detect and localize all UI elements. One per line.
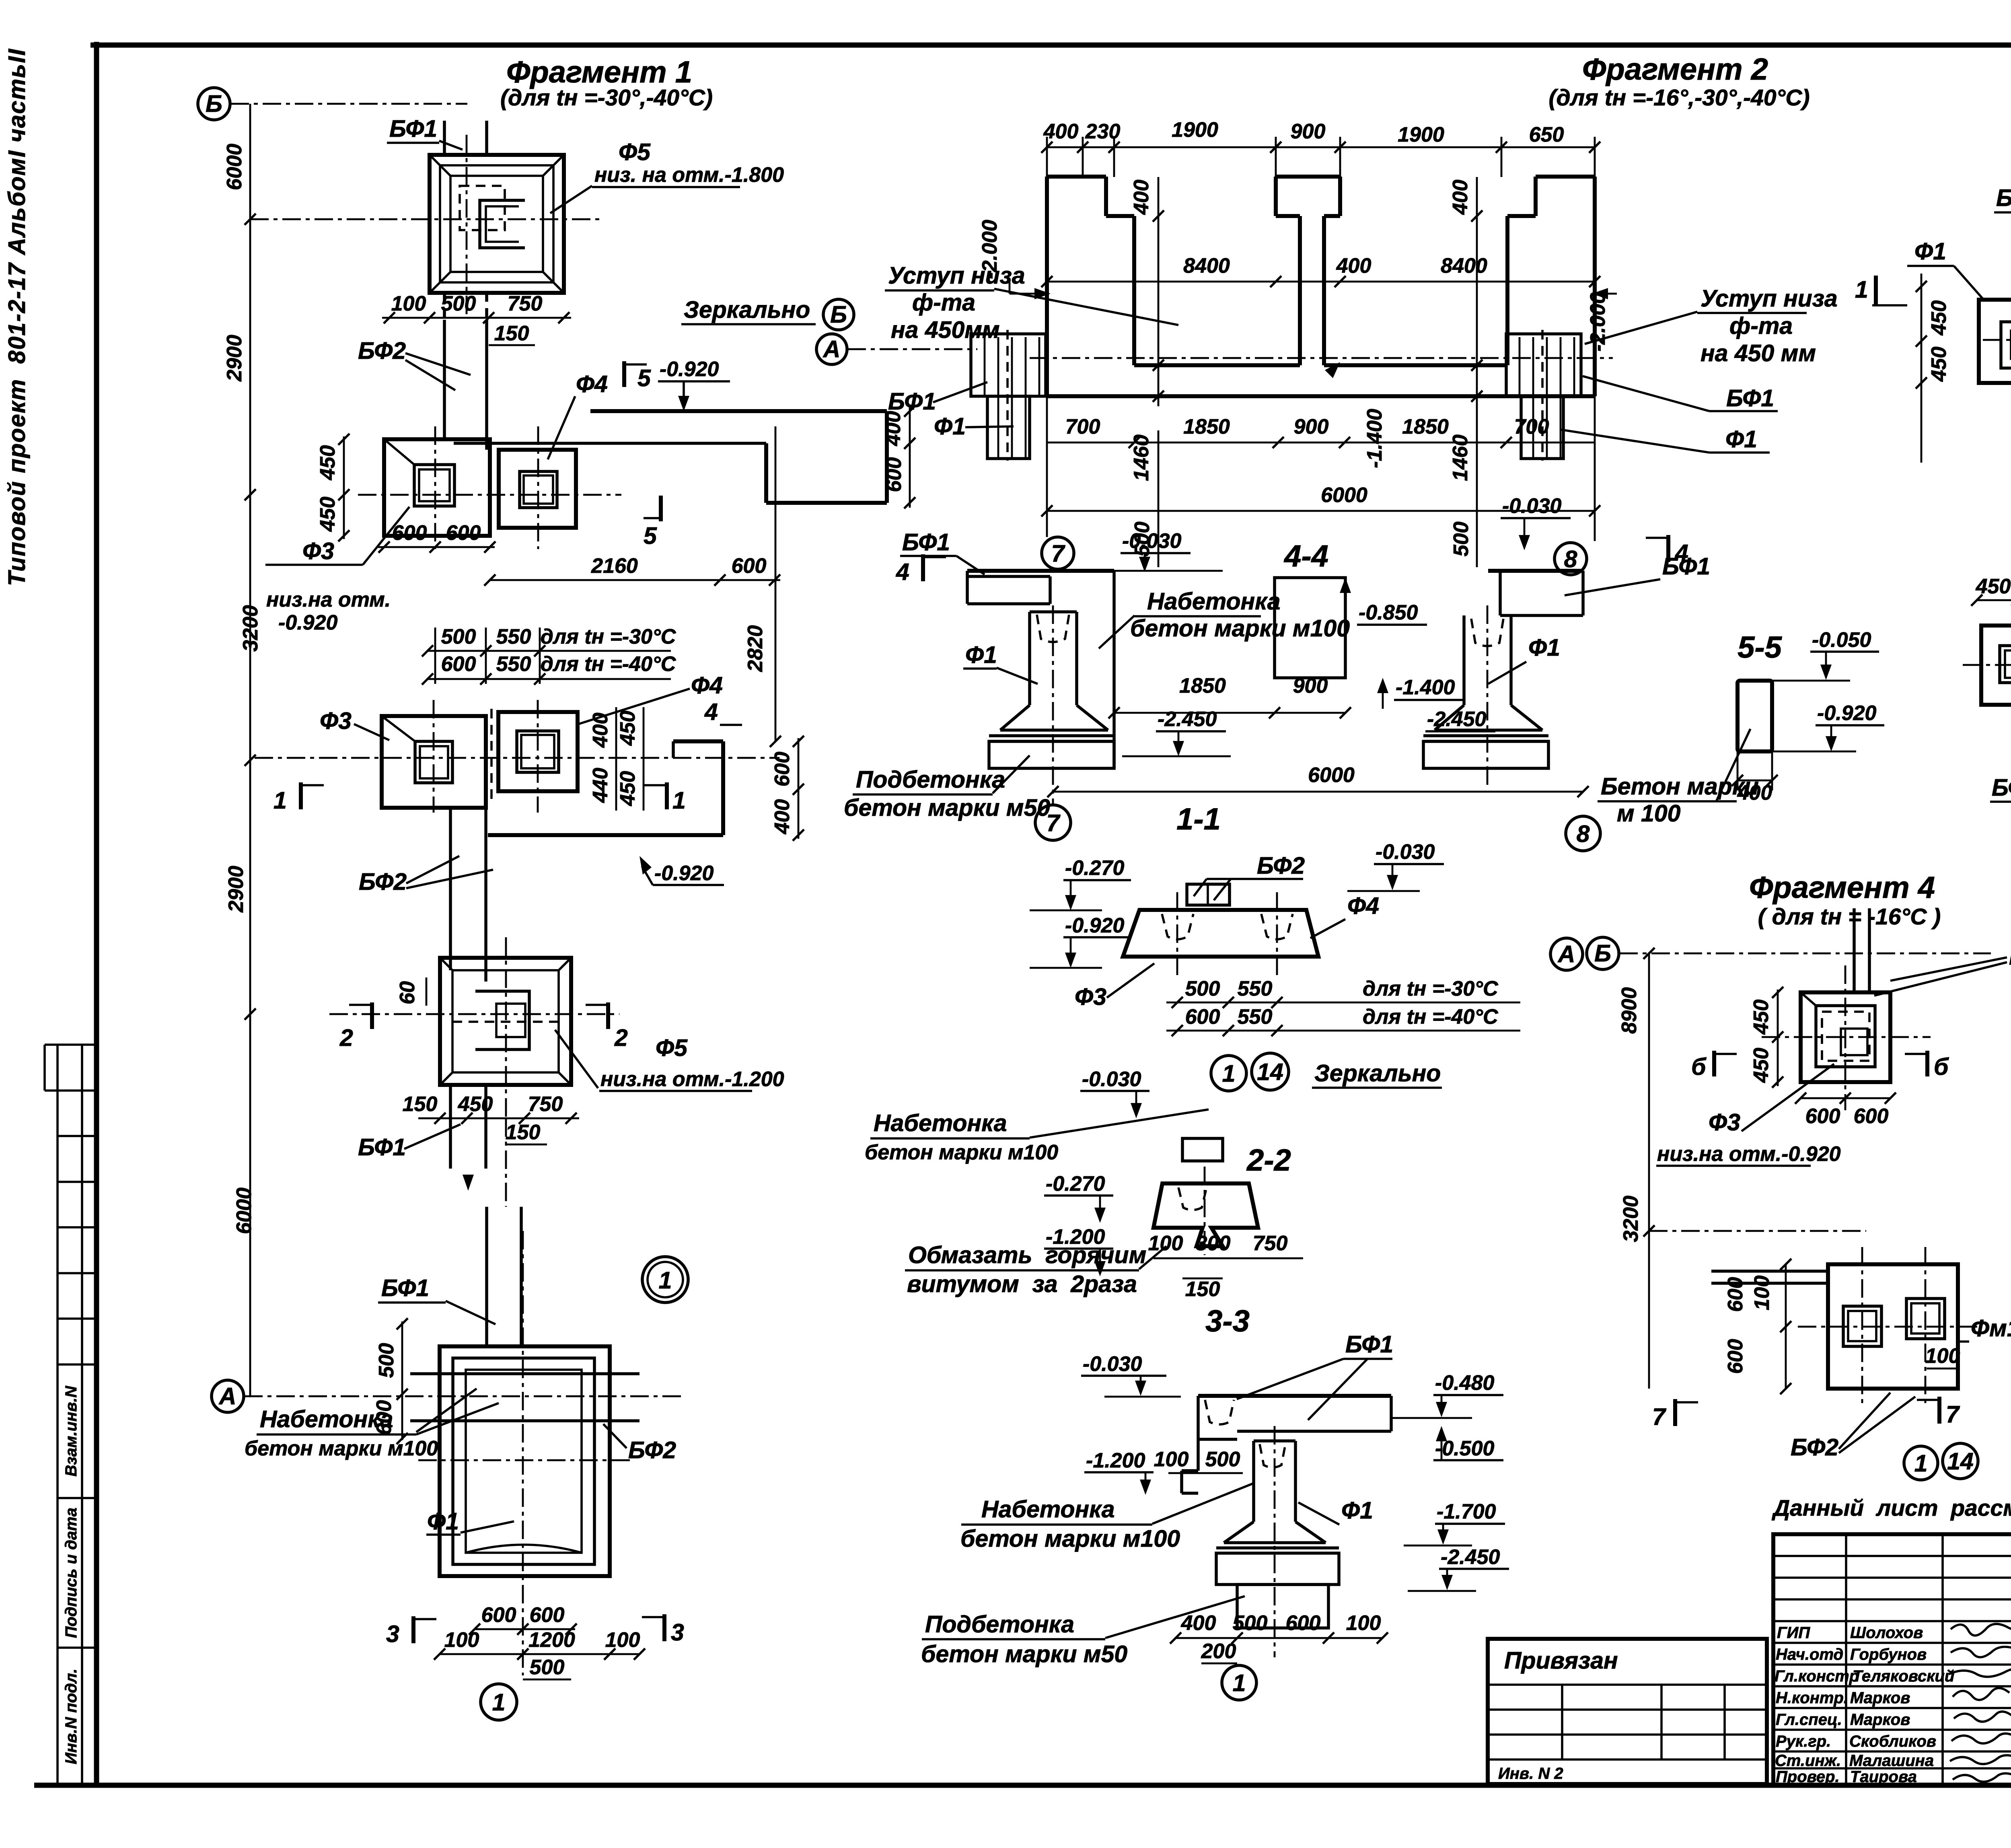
- svg-text:750: 750: [528, 1093, 563, 1116]
- dim 2160 600: [484, 554, 780, 586]
- foundation Ф5 plan bottom: [440, 958, 571, 1085]
- svg-text:Фрагмент 4: Фрагмент 4: [1749, 870, 1935, 905]
- Привязан box: [1488, 1639, 1767, 1784]
- foundation Ф4 plan (middle): [491, 709, 578, 801]
- svg-text:500: 500: [375, 1343, 398, 1378]
- svg-text:Набетонка: Набетонка: [260, 1406, 393, 1432]
- svg-text:8900: 8900: [1618, 987, 1641, 1034]
- svg-text:БФ2: БФ2: [1992, 774, 2011, 801]
- svg-text:600: 600: [446, 521, 481, 545]
- 4-4 plan: top dim row 400 230 1900 900 1900 650: [1041, 118, 1600, 177]
- dim 600/400 right of middle wall: [771, 736, 804, 841]
- dim 100 (fragment 4 lower): [1925, 1344, 1960, 1369]
- 4-4 left column stub БФ1: [971, 330, 1046, 461]
- svg-text:400: 400: [771, 799, 794, 835]
- label БФ2 (2-2): [1194, 852, 1305, 900]
- fragment 3 lower foundation Ф4 plan: [1981, 626, 2011, 705]
- svg-text:БФ1: БФ1: [1726, 385, 1774, 412]
- svg-text:900: 900: [1291, 120, 1326, 143]
- svg-text:-0.030: -0.030: [1122, 529, 1182, 553]
- label Ф3 (2-2): [1075, 963, 1154, 1010]
- svg-text:Теляковский: Теляковский: [1853, 1667, 1954, 1685]
- section marks 1-1 (fragment 1): [273, 782, 324, 814]
- svg-text:750: 750: [1253, 1232, 1288, 1255]
- label БФ1 top: [387, 115, 463, 150]
- dims 100 1200 100: [434, 1628, 645, 1679]
- foundation Ф3 plan (fragment 4): [1801, 992, 1890, 1082]
- svg-text:2820: 2820: [744, 625, 767, 672]
- svg-text:Гл.спец.: Гл.спец.: [1776, 1711, 1842, 1729]
- svg-text:1-1: 1-1: [1176, 802, 1221, 836]
- label БФ2 (fragment 3 lower): [1990, 774, 2011, 803]
- svg-text:600: 600: [1854, 1105, 1889, 1128]
- svg-text:6000: 6000: [1308, 763, 1355, 787]
- grid circle 1 (3-3): [1222, 1665, 1256, 1700]
- elevation -2.450 left (1-1): [1122, 708, 1231, 756]
- dim 1850 900 (1-1): [1108, 674, 1351, 718]
- centerlines bottom Ф5: [329, 937, 619, 1118]
- label БФ1 (3-3): [1237, 1331, 1393, 1420]
- svg-text:100: 100: [1750, 1276, 1774, 1311]
- label Набетонка (3-3): [960, 1484, 1253, 1552]
- svg-text:150: 150: [506, 1121, 541, 1144]
- label Ф1 (1-1): [963, 642, 1038, 684]
- label Набетонка (2-2/3-3 area): [865, 1109, 1209, 1164]
- centerlines (fragment 4 plan): [1762, 965, 1931, 1110]
- foundation Ф3 plan (upper): [384, 439, 490, 536]
- svg-text:А: А: [218, 1383, 236, 1410]
- label Ф3 with note (upper): [265, 507, 409, 634]
- svg-text:низ.на отм.-0.920: низ.на отм.-0.920: [1657, 1142, 1841, 1166]
- section marks 2: [339, 1002, 372, 1051]
- dim -1.400 middle: [1325, 362, 1386, 468]
- dims 100 500 (3-3): [1154, 1448, 1243, 1473]
- label Ф3 (middle plan): [320, 708, 389, 740]
- svg-text:14: 14: [1257, 1059, 1283, 1085]
- centerlines middle plan: [255, 700, 779, 813]
- foundation Ф1 plan (bottom, tall): [440, 1346, 610, 1576]
- section mark 5 bottom: [644, 496, 661, 549]
- svg-text:440: 440: [589, 768, 612, 803]
- svg-text:1850: 1850: [1183, 415, 1230, 438]
- signature squiggles: [1949, 1621, 2011, 1782]
- 4-4 plan outline: left tower: [1047, 177, 1134, 396]
- svg-text:-0.920: -0.920: [1065, 914, 1125, 937]
- dim table rows для t -30/-40 (fragment 1 middle): [422, 625, 677, 685]
- label БФ1 (4-4 left): [888, 382, 987, 415]
- svg-text:600: 600: [771, 752, 794, 787]
- svg-text:550: 550: [1238, 977, 1273, 1000]
- fragment 1 title: [500, 55, 713, 111]
- svg-text:Ф3: Ф3: [1709, 1109, 1740, 1136]
- svg-text:-0.050: -0.050: [1812, 628, 1871, 652]
- svg-text:8400: 8400: [1183, 254, 1230, 278]
- label БФ2 upper: [358, 337, 471, 390]
- svg-text:1: 1: [1914, 1450, 1928, 1477]
- svg-text:6000: 6000: [232, 1187, 256, 1234]
- svg-text:600: 600: [392, 521, 427, 545]
- label Набетонка (fragment 1 bottom): [245, 1389, 499, 1460]
- svg-text:450: 450: [1927, 300, 1951, 336]
- svg-text:600: 600: [882, 457, 906, 492]
- svg-text:-0.480: -0.480: [1435, 1371, 1495, 1395]
- svg-text:бетон марки м100: бетон марки м100: [960, 1525, 1180, 1552]
- svg-text:1460: 1460: [1449, 434, 1472, 481]
- svg-text:БФ2: БФ2: [358, 337, 406, 364]
- dim 500/600 left of bottom plan: [372, 1318, 408, 1444]
- svg-text:4: 4: [704, 699, 718, 725]
- svg-text:Скобликов: Скобликов: [1849, 1733, 1936, 1750]
- grid circle Б: [198, 88, 230, 120]
- svg-text:600: 600: [1724, 1277, 1747, 1312]
- signature table rows: [1773, 1534, 2011, 1785]
- svg-text:Ф1: Ф1: [1341, 1497, 1373, 1524]
- svg-text:600: 600: [1185, 1005, 1220, 1029]
- svg-text:100: 100: [1346, 1611, 1381, 1635]
- section marks 7 (fragment 4): [1652, 1399, 1698, 1430]
- section title 2-2: [1246, 1143, 1291, 1177]
- dim 400 (5-5): [1732, 751, 1778, 805]
- svg-text:Набетонка: Набетонка: [1147, 588, 1281, 615]
- svg-text:б: б: [1691, 1054, 1707, 1080]
- frame border left: [94, 42, 99, 1785]
- grid circles А Б (fragment 4): [1550, 938, 1583, 970]
- БФ2 beam blocks (2-2): [1187, 884, 1230, 905]
- svg-text:900: 900: [1294, 415, 1329, 438]
- grid circles 1 14 (fragment 4): [1904, 1446, 1938, 1480]
- svg-text:ф-та: ф-та: [1729, 313, 1793, 339]
- elevation -0.030 (1-1 right): [1501, 494, 1571, 550]
- svg-text:Ф3: Ф3: [320, 708, 352, 734]
- svg-text:-2.450: -2.450: [1158, 708, 1217, 731]
- svg-text:Фрагмент 2: Фрагмент 2: [1582, 52, 1768, 86]
- elevation -0.920 upper: [658, 358, 730, 411]
- svg-text:3: 3: [671, 1619, 684, 1646]
- svg-text:низ. на отм.-1.800: низ. на отм.-1.800: [594, 163, 784, 187]
- label Подбетонка (3-3): [921, 1596, 1245, 1667]
- svg-text:1200: 1200: [528, 1628, 575, 1652]
- label Набетонка (1-1): [1099, 588, 1350, 648]
- svg-text:Ф3: Ф3: [1075, 984, 1106, 1010]
- grid circle Б (mirror): [823, 299, 854, 330]
- svg-text:Провер.: Провер.: [1776, 1768, 1840, 1786]
- 1-1 middle pier: [1275, 578, 1345, 678]
- centerlines fragment 3 blocks: [1983, 278, 2011, 459]
- beam band across bottom plan: [410, 1374, 639, 1421]
- dim 600 600 below Ф3: [378, 521, 496, 553]
- svg-text:300: 300: [1196, 1232, 1231, 1255]
- section title 3-3: [1205, 1304, 1250, 1338]
- left margin table verticals: [45, 1045, 82, 1785]
- svg-text:1850: 1850: [1402, 415, 1449, 438]
- label Обмазать горячим битумом за 2 раза: [905, 1242, 1166, 1297]
- foundation Ф5 plan top: nested squares: [430, 155, 564, 293]
- svg-text:Ст.инж.: Ст.инж.: [1775, 1752, 1841, 1770]
- svg-text:бетон марки м50: бетон марки м50: [921, 1641, 1127, 1667]
- label БФ2 (fragment 4 lower): [1791, 1393, 1915, 1461]
- svg-text:500: 500: [1205, 1448, 1240, 1471]
- svg-text:бетон марки м100: бетон марки м100: [245, 1437, 438, 1460]
- svg-text:БФ1: БФ1: [1662, 553, 1710, 580]
- label Зеркально (2-2): [1312, 1060, 1442, 1088]
- dim 2820 (fragment 1): [744, 426, 781, 747]
- svg-text:Ф4: Ф4: [576, 371, 608, 397]
- label Подбетонка (1-1): [844, 755, 1050, 821]
- label бетон марки М100 (5-5): [1598, 729, 1759, 827]
- wall corner plan (upper right of fragment 1): [454, 411, 887, 503]
- svg-text:БФ2: БФ2: [1791, 1434, 1838, 1461]
- label БФ1 right (bottom plan): [603, 1424, 676, 1463]
- svg-text:1: 1: [1233, 1670, 1246, 1696]
- svg-text:400: 400: [1181, 1611, 1216, 1635]
- centerlines of Ф5 top: [250, 135, 603, 318]
- vertical dimension chain x=622: [223, 104, 262, 1396]
- grid circle 7 (1-1): [1035, 805, 1071, 840]
- svg-text:450: 450: [1927, 347, 1951, 382]
- dims 600 100 600 (fragment 4 lower): [1724, 1259, 1791, 1394]
- svg-text:60: 60: [396, 981, 419, 1004]
- svg-text:500: 500: [1450, 522, 1473, 557]
- svg-text:БФ2: БФ2: [1257, 852, 1305, 879]
- svg-text:Инв.N подл.: Инв.N подл.: [62, 1669, 80, 1764]
- dims 600 600 below bottom plan: [469, 1603, 577, 1635]
- label Ф4 (2-2): [1310, 893, 1379, 938]
- svg-text:600: 600: [1286, 1611, 1321, 1635]
- svg-text:Б: Б: [206, 91, 222, 117]
- svg-text:БФ2: БФ2: [628, 1437, 676, 1463]
- elevation -0.030 (3-3): [1081, 1352, 1181, 1397]
- section marks 3: [386, 1616, 436, 1647]
- elevation -1.200 (3-3): [1084, 1449, 1154, 1495]
- svg-text:-0.920: -0.920: [654, 862, 714, 885]
- elevation -2.450 (3-3): [1408, 1545, 1509, 1591]
- svg-text:Марков: Марков: [1850, 1711, 1910, 1729]
- elevation -0.920 (5-5): [1772, 702, 1884, 751]
- svg-text:Ф1: Ф1: [1914, 238, 1946, 265]
- elevation -1.200 (3-3 upper): [1044, 1225, 1113, 1276]
- svg-text:Нач.отд: Нач.отд: [1776, 1646, 1843, 1663]
- elevation -0.500 (3-3 right): [1433, 1426, 1503, 1460]
- svg-text:Марков: Марков: [1850, 1689, 1910, 1707]
- svg-text:100: 100: [1154, 1448, 1189, 1471]
- fragment 4 lower plan Фм1: [1649, 1231, 1979, 1408]
- svg-text:600: 600: [732, 554, 767, 578]
- svg-text:-0.920: -0.920: [278, 611, 338, 634]
- svg-text:1: 1: [273, 787, 287, 814]
- elevation -1.400 (1-1): [1377, 676, 1464, 709]
- dim 450/450 left: [316, 434, 350, 541]
- svg-text:-0.850: -0.850: [1359, 601, 1418, 624]
- svg-text:550: 550: [496, 625, 531, 648]
- elevation -0.920 (middle): [639, 856, 724, 885]
- dims 1460 / 500 left inner: [1130, 177, 1164, 567]
- title block outer: [1773, 1534, 2011, 1785]
- svg-text:-2.450: -2.450: [1441, 1545, 1500, 1569]
- dims 400 500 600 100 under 3-3: [1170, 1611, 1388, 1663]
- svg-text:7: 7: [1051, 540, 1066, 567]
- dim 600 600 (fragment 4): [1795, 1093, 1896, 1128]
- svg-text:БФ1: БФ1: [381, 1275, 429, 1301]
- svg-text:Б: Б: [830, 301, 847, 328]
- svg-text:-0.920: -0.920: [660, 358, 719, 381]
- label Уступ низа ф-та на 450мм (left): [885, 262, 1178, 343]
- wall БФ2 strip down from Ф5: [444, 320, 487, 450]
- foundation Ф4 plan (upper): [499, 450, 576, 528]
- svg-text:Ф4: Ф4: [691, 672, 723, 699]
- signature table texts: [1775, 1624, 1954, 1786]
- svg-text:450: 450: [316, 445, 339, 481]
- label Ф1 (3-3): [1298, 1497, 1373, 1525]
- svg-text:(для tн =-30°,-40°С): (для tн =-30°,-40°С): [500, 85, 713, 111]
- svg-text:Рук.гр.: Рук.гр.: [1776, 1733, 1831, 1750]
- wall БФ2 strip between plans: [450, 808, 486, 982]
- 1-1 left beam БФ1: [967, 571, 1114, 604]
- svg-text:4: 4: [896, 559, 909, 585]
- dim 450 450 (fragment 4): [1750, 987, 1783, 1088]
- svg-text:2900: 2900: [223, 335, 246, 382]
- 4-4 plan outline: right tower: [1507, 177, 1595, 396]
- svg-text:ф-та: ф-та: [912, 289, 975, 316]
- svg-text:6000: 6000: [223, 144, 246, 190]
- svg-text:низ.на отм.: низ.на отм.: [266, 588, 391, 611]
- svg-text:Зеркально: Зеркально: [1314, 1060, 1441, 1087]
- svg-text:для tн =-30°С: для tн =-30°С: [1363, 977, 1499, 1000]
- svg-text:500: 500: [441, 292, 476, 315]
- 4-4 plan outline: middle tower: [1276, 177, 1340, 365]
- svg-text:Ф1: Ф1: [1528, 634, 1560, 661]
- svg-text:1: 1: [672, 787, 686, 814]
- svg-text:650: 650: [1529, 123, 1564, 146]
- svg-text:1: 1: [1855, 276, 1868, 303]
- label Фм1 (fragment 4): [1959, 1315, 2011, 1342]
- dim 6000 under 1-1: [1047, 763, 1589, 797]
- svg-text:700: 700: [1514, 415, 1549, 438]
- svg-text:-0.030: -0.030: [1083, 1352, 1142, 1376]
- elevation -0.030 (below 2-2): [1080, 1068, 1149, 1118]
- svg-text:900: 900: [1293, 674, 1328, 698]
- svg-text:600: 600: [530, 1603, 565, 1627]
- centerlines bottom plan: [418, 1231, 631, 1675]
- svg-text:450: 450: [616, 711, 639, 746]
- node circle 1 (large, fragment 1): [642, 1257, 688, 1303]
- svg-text:А: А: [822, 336, 841, 362]
- grid circle А (mirror): [816, 334, 847, 364]
- left margin rotated label Подпись и дата: [62, 1508, 80, 1638]
- svg-text:-0.030: -0.030: [1082, 1068, 1141, 1091]
- label Ф4 upper plan: [548, 371, 608, 459]
- 1-1 column Ф1: [989, 605, 1114, 805]
- section mark 4 left: [896, 554, 946, 585]
- svg-text:на 450 мм: на 450 мм: [1701, 340, 1816, 366]
- label БФ1 (fragment 1 bottom): [378, 1275, 496, 1324]
- svg-text:БФ2: БФ2: [359, 868, 407, 895]
- svg-text:3200: 3200: [1619, 1196, 1643, 1242]
- svg-text:б: б: [1934, 1054, 1949, 1080]
- svg-text:7: 7: [1946, 1401, 1960, 1428]
- svg-text:1: 1: [492, 1689, 506, 1716]
- svg-text:8: 8: [1577, 821, 1590, 847]
- svg-text:100: 100: [444, 1628, 479, 1652]
- svg-text:Малашина: Малашина: [1849, 1752, 1934, 1770]
- label БФ1 (1-1 right top): [1565, 553, 1710, 595]
- wall corner (middle right): [488, 741, 723, 835]
- label Зеркально (left): [681, 296, 816, 324]
- dimension row 100 500 750 under Ф5: [382, 292, 571, 345]
- label Ф1 (4-4 left): [934, 413, 1014, 440]
- svg-text:витумом за 2раза: витумом за 2раза: [907, 1271, 1137, 1297]
- 4-4 plan beam lines: [1030, 358, 1613, 396]
- svg-text:600: 600: [481, 1603, 516, 1627]
- grid circle 7 (4-4): [1042, 537, 1074, 569]
- svg-text:Б: Б: [1594, 940, 1611, 967]
- svg-text:7: 7: [1047, 810, 1061, 836]
- svg-text:2900: 2900: [224, 866, 248, 913]
- elevation -0.270 (3-3 upper): [1044, 1172, 1113, 1223]
- elevation -0.050 (5-5): [1772, 628, 1879, 681]
- svg-text:Фрагмент 1: Фрагмент 1: [506, 55, 692, 89]
- centerlines upper plan: [358, 426, 621, 549]
- svg-text:150: 150: [1185, 1278, 1220, 1301]
- svg-text:БФ2: БФ2: [1996, 185, 2011, 211]
- svg-text:1: 1: [659, 1267, 672, 1294]
- svg-text:100: 100: [391, 292, 426, 315]
- note: Данный лист рассматривать совместно: [1771, 1495, 2011, 1521]
- fragment 4 title: [1749, 870, 1941, 930]
- svg-text:Ф1: Ф1: [934, 413, 966, 440]
- svg-text:400: 400: [882, 411, 905, 447]
- elevation -0.270 (2-2): [1030, 856, 1131, 910]
- svg-text:Ф5: Ф5: [656, 1035, 688, 1061]
- svg-text:БФ1: БФ1: [1345, 1331, 1393, 1358]
- svg-text:5: 5: [644, 523, 657, 549]
- svg-text:Подбетонка: Подбетонка: [925, 1611, 1074, 1638]
- label БФ1 (1-1): [900, 529, 985, 574]
- svg-text:400: 400: [589, 713, 612, 748]
- svg-text:4-4: 4-4: [1283, 539, 1328, 573]
- svg-text:-0.270: -0.270: [1046, 1172, 1105, 1196]
- svg-text:7: 7: [1652, 1403, 1667, 1430]
- svg-text:-0.920: -0.920: [1817, 702, 1877, 725]
- elevation -2.450 right (1-1): [1425, 708, 1495, 731]
- svg-text:Взам.инв.N: Взам.инв.N: [62, 1385, 80, 1476]
- svg-text:Шолохов: Шолохов: [1850, 1624, 1923, 1642]
- svg-text:Данный лист рассматривать с: Данный лист рассматривать совместно с ли…: [1771, 1495, 2011, 1521]
- frame border bottom: [34, 1783, 2011, 1788]
- svg-text:БФ1: БФ1: [888, 388, 936, 415]
- svg-text:Н.контр.: Н.контр.: [1776, 1689, 1848, 1707]
- grid line from А: [244, 1395, 686, 1397]
- centerlines fragment 3 lower: [1963, 607, 2011, 724]
- 4-4 right column stub БФ1: [1506, 330, 1581, 461]
- label Уступ низа ф-та на 450 мм (right): [1585, 285, 1838, 366]
- grid line from А mirror: [847, 348, 977, 350]
- svg-text:Уступ низа: Уступ низа: [888, 262, 1025, 289]
- svg-text:450: 450: [458, 1093, 493, 1116]
- elevation -0.920 (2-2): [1030, 914, 1131, 968]
- svg-text:5-5: 5-5: [1738, 630, 1783, 665]
- svg-text:-2.000: -2.000: [978, 220, 1001, 279]
- fragment 3 foundation Ф1 plan (left block): [1979, 300, 2011, 383]
- svg-text:Ф3: Ф3: [302, 538, 334, 564]
- svg-text:-1.700: -1.700: [1437, 1500, 1496, 1523]
- svg-text:1900: 1900: [1398, 123, 1444, 146]
- svg-text:( для tн = -16°С ): ( для tн = -16°С ): [1758, 904, 1941, 930]
- svg-text:450: 450: [1750, 1048, 1773, 1083]
- dims 400 450 440 450 right of middle plan: [589, 707, 644, 811]
- svg-text:1850: 1850: [1179, 674, 1226, 698]
- svg-text:на 450мм: на 450мм: [891, 317, 1000, 343]
- column strip into bottom plan: [487, 1207, 521, 1346]
